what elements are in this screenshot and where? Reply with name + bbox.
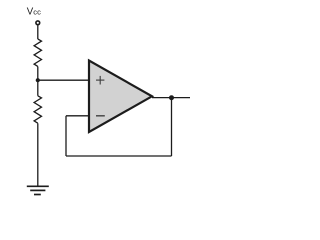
Vcc terminal: [36, 21, 40, 25]
wire feedback to - input: [66, 115, 89, 117]
wire op-amp output: [152, 97, 190, 99]
wire node A to R2: [37, 80, 39, 96]
wire node A to op-amp + input: [38, 79, 89, 81]
resistor R1: [34, 39, 41, 66]
wire feedback bottom horizontal: [66, 155, 172, 157]
node A junction dot: [36, 78, 40, 82]
op-amp + input marker: [96, 76, 104, 85]
wire R1 to node A: [37, 67, 39, 81]
svg-text:Vcc: Vcc: [27, 6, 41, 17]
wire R2 to ground: [37, 123, 39, 186]
resistor R2: [34, 96, 41, 123]
wire feedback left vertical: [65, 116, 67, 156]
node output junction dot: [169, 95, 174, 100]
op-amp U1: [89, 61, 152, 133]
op-amp - input marker: [96, 115, 105, 117]
wire Vcc terminal to R1: [37, 26, 39, 40]
wire feedback right vertical: [171, 98, 173, 156]
ground: [27, 186, 49, 194]
